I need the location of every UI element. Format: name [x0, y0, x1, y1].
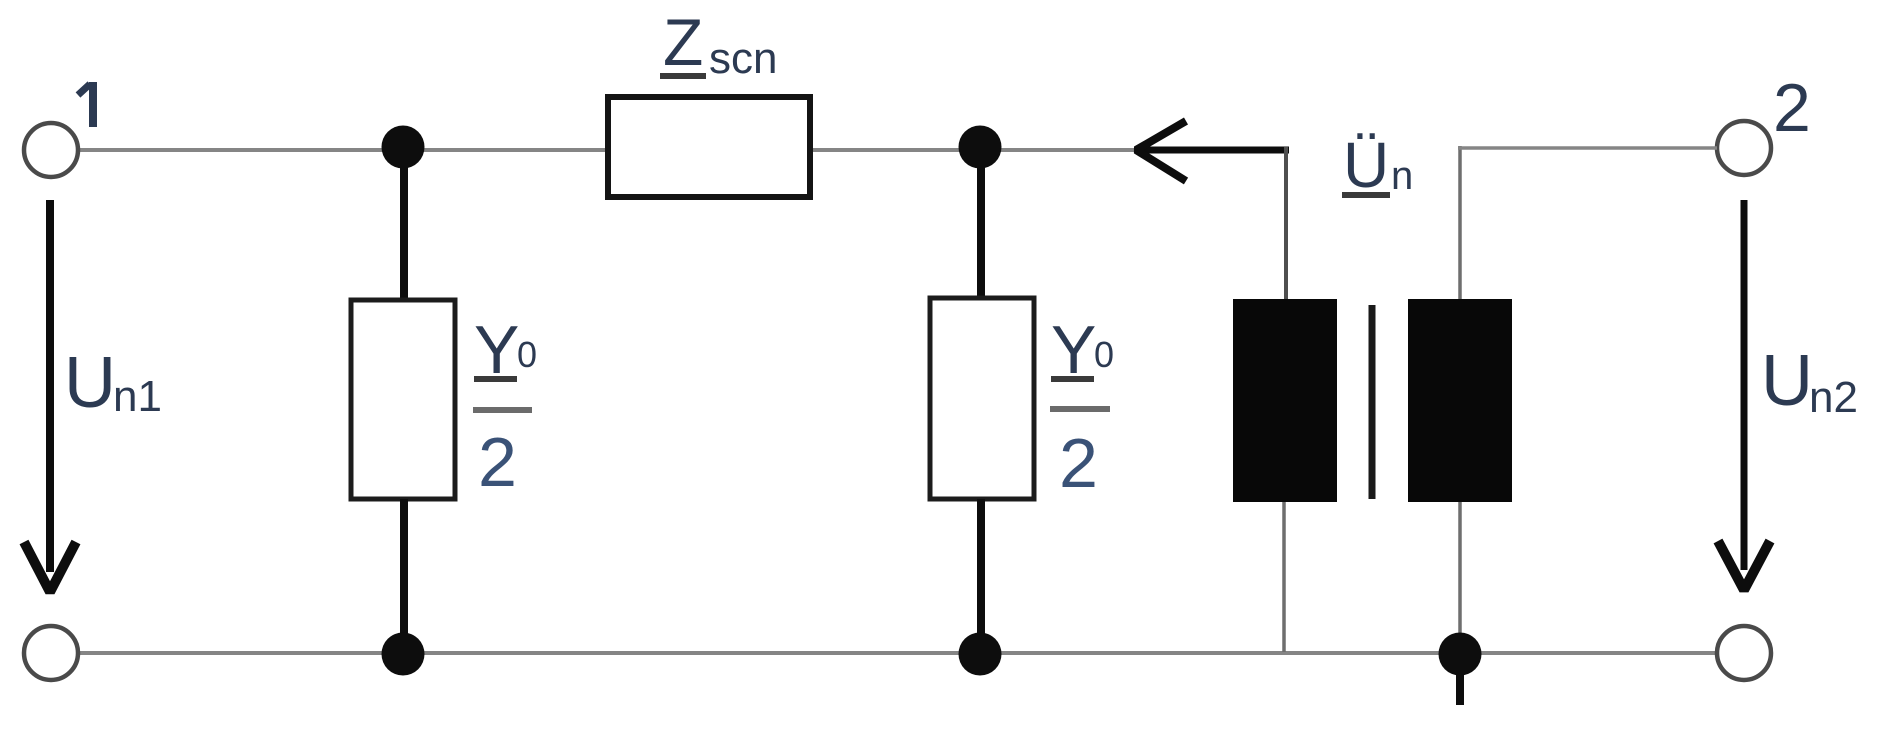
label Y0/2 (left): [473, 312, 537, 501]
wire admittance box Y1 down to node C: [400, 499, 408, 653]
wire node A down to admittance box Y1: [400, 150, 408, 300]
transformer core bar: [1369, 305, 1376, 499]
junction node B (top, x=980): [959, 126, 1002, 169]
svg-text:n2: n2: [1809, 373, 1858, 422]
svg-text:n1: n1: [113, 372, 162, 421]
wire admittance box Y2 down to node D: [977, 499, 985, 653]
wire primary winding bottom to bottom rail: [1282, 502, 1286, 652]
svg-text:0: 0: [517, 334, 537, 375]
label Zscn: [660, 5, 777, 83]
voltage arrow Un1: [24, 200, 76, 592]
svg-text:Z: Z: [663, 5, 703, 79]
wire secondary winding bottom to node E: [1458, 502, 1462, 653]
svg-text:2: 2: [1059, 424, 1098, 502]
svg-text:Ü: Ü: [1343, 129, 1389, 201]
svg-text:2: 2: [478, 423, 517, 501]
admittance box Y0/2 (left): [351, 300, 455, 499]
wire top segment: Zscn box to node B: [810, 148, 961, 152]
terminal 1 (top left): [24, 123, 78, 177]
svg-text:U: U: [1761, 341, 1813, 421]
terminal 2 (top right): [1717, 121, 1771, 175]
current arrow (pointing left) on top wire: [1136, 121, 1289, 181]
label Un (transformer ratio): [1342, 129, 1413, 201]
svg-text:U: U: [64, 343, 116, 423]
wire bottom rail: [79, 651, 1717, 655]
wire node B down to admittance box Y2: [977, 150, 985, 300]
wire top segment: terminal 1 to node A: [79, 148, 384, 152]
label Un1: [64, 343, 162, 423]
svg-text:n: n: [1391, 154, 1413, 198]
wire secondary winding top up and right to terminal 2: [1458, 146, 1717, 299]
voltage arrow Un2: [1718, 200, 1770, 590]
svg-text:2: 2: [1773, 70, 1811, 146]
junction node D (bottom, x=980): [959, 633, 1002, 676]
svg-text:0: 0: [1094, 334, 1114, 375]
junction node A (top, x=403): [382, 126, 425, 169]
node label 1: [78, 82, 93, 127]
wire top segment: node A to Zscn box: [422, 148, 608, 152]
terminal (bottom right): [1717, 626, 1771, 680]
terminal (bottom left): [24, 626, 78, 680]
svg-text:scn: scn: [709, 34, 777, 83]
transformer secondary winding (filled): [1408, 299, 1512, 502]
junction node C (bottom, x=403): [382, 633, 425, 676]
transformer primary winding (filled): [1233, 299, 1337, 502]
label Un2: [1761, 341, 1858, 422]
node label 2: [1773, 70, 1811, 146]
label Y0/2 (right): [1050, 312, 1114, 502]
impedance box Zscn: [608, 97, 810, 197]
junction node E (bottom, x=1460) with stub: [1439, 633, 1482, 706]
wire corner down to transformer primary winding: [1284, 147, 1288, 300]
admittance box Y0/2 (right): [930, 298, 1034, 499]
wire top segment: node B to current arrow tip: [999, 148, 1134, 152]
